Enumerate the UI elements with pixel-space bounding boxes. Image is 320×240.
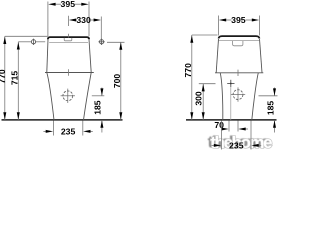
cistern lid (side, dark)	[48, 37, 89, 39]
pedestal right profile (front)	[252, 73, 258, 120]
dim 70 (front view, below floor)	[223, 121, 249, 132]
dim 700 (supply height, left view)	[107, 41, 125, 43]
svg-text:235: 235	[229, 140, 244, 150]
svg-text:395: 395	[231, 15, 246, 25]
dim 235 (front view, bottom)	[212, 121, 262, 150]
pedestal left profile (front)	[220, 73, 223, 120]
svg-text:300: 300	[194, 91, 204, 106]
dim 770 (left view)	[5, 35, 48, 37]
dim 185 (front view, right)	[259, 95, 278, 97]
floor line left	[2, 119, 123, 121]
dim 395 (left view, top)	[48, 2, 89, 37]
svg-text:770: 770	[0, 69, 7, 84]
watermark thehome	[208, 132, 273, 152]
svg-text:715: 715	[10, 71, 20, 86]
supply connection circle behind cistern	[98, 39, 104, 45]
lid joint line (front)	[219, 39, 259, 41]
cistern right wall	[89, 40, 91, 73]
dim 330 (left view)	[69, 16, 102, 40]
centerline below cross	[230, 88, 232, 121]
cistern right wall (front)	[260, 39, 263, 73]
dim 715 (left view)	[18, 41, 31, 43]
svg-text:235: 235	[61, 126, 76, 136]
svg-text:770: 770	[183, 63, 193, 78]
svg-text:700: 700	[112, 74, 122, 89]
svg-text:185: 185	[266, 101, 276, 116]
floor line right	[186, 119, 277, 121]
supply cross marker	[227, 80, 234, 87]
svg-text:395: 395	[61, 0, 76, 9]
cistern left wall (front)	[216, 39, 218, 73]
dim 395 (front view, top)	[219, 16, 260, 36]
pedestal front profile	[47, 73, 54, 121]
cistern bottom	[45, 72, 94, 74]
pedestal rear profile	[84, 73, 92, 121]
outlet circle (dashed) front view	[231, 87, 245, 101]
lid button recess (side)	[64, 38, 72, 41]
svg-text:70: 70	[214, 120, 224, 130]
dim 770 (front view)	[192, 34, 218, 36]
outlet circle (dashed) left view	[61, 89, 75, 103]
svg-text:185: 185	[93, 100, 103, 115]
cistern left wall	[47, 40, 48, 73]
cistern bottom (front)	[215, 72, 263, 74]
seat hinge circle	[31, 39, 35, 45]
svg-text:330: 330	[76, 15, 91, 25]
dim 185 (outlet height, left view)	[92, 95, 105, 97]
cistern lid (front, dark, arched)	[219, 36, 260, 38]
lid centerline tick	[68, 34, 70, 38]
dim 300 (front view)	[199, 83, 216, 85]
cistern bottom centerline tick	[68, 69, 70, 75]
lid joint line	[49, 42, 88, 44]
dim 235 (left view, bottom)	[43, 121, 92, 136]
cistern bottom centerline tick	[237, 70, 239, 76]
handle recess	[233, 41, 243, 46]
